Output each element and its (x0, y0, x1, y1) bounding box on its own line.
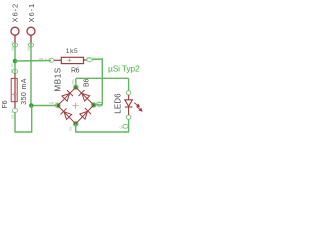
diode D4 bottom-right edge (points to right) (76, 105, 94, 124)
connector X6-2 pin stem (14, 35, 16, 43)
wire X6-1 down to junction (30, 43, 32, 106)
diode D1 top-left edge (points to top) (58, 87, 76, 105)
net label ellipse near LED bottom (123, 124, 128, 128)
net label ellipse at bridge right pin (97, 102, 103, 106)
fuse F6 through-line (14, 74, 16, 109)
wire down to LED top (128, 78, 130, 90)
top dc rail (76, 77, 129, 79)
wire bridge bottom to LED bottom rail (76, 119, 129, 132)
svg-text:B6: B6 (84, 79, 91, 87)
resistor R6 origin cross (68, 58, 72, 62)
svg-text:1k5: 1k5 (66, 48, 79, 55)
net label ellipse above fuse (12, 70, 17, 74)
resistor R6 left stem (54, 59, 61, 61)
svg-text:LED6: LED6 (113, 93, 122, 114)
net label ellipse at X6-1 pin (28, 43, 33, 47)
wire junction to bridge left pin (31, 105, 56, 107)
svg-text:DB_N: DB_N (27, 43, 31, 51)
diode D2 top-right edge (points to top) (76, 87, 94, 105)
svg-text:DB_1: DB_1 (39, 57, 47, 61)
fuse F6 origin cross (12, 92, 17, 97)
svg-text:MB1S: MB1S (53, 67, 62, 91)
diode D3 bottom-left edge (points to left) (58, 106, 76, 124)
svg-text:DB+: DB+ (96, 100, 102, 104)
net label ellipse below fuse (12, 108, 17, 112)
LED6 bottom pin circle (126, 115, 130, 119)
wire fuse bottom to X6-1 junction (15, 106, 32, 133)
svg-text:R6: R6 (71, 68, 80, 75)
net label ellipse at R6 left pin (49, 58, 54, 62)
LED6 diode symbol (125, 95, 133, 115)
svg-text:DB-: DB- (69, 126, 73, 131)
svg-text:DB_HV: DB_HV (11, 41, 15, 51)
bridge left pin junction (55, 103, 60, 108)
connector X6-1 pin stem (30, 35, 32, 43)
svg-text:X6-2: X6-2 (11, 3, 20, 23)
svg-text:X6-1: X6-1 (27, 3, 36, 23)
svg-text:DB+: DB+ (71, 78, 75, 84)
svg-text:350 mA: 350 mA (21, 78, 28, 105)
junction on X6-2 wire (13, 59, 18, 64)
bridge origin cross (73, 103, 79, 109)
connector X6-2 pad (11, 27, 19, 35)
wire rail to resistor R6 left (15, 60, 51, 63)
net label ellipse at X6-2 pin (12, 43, 17, 47)
wire X6-2 down to fuse (14, 43, 16, 74)
resistor R6 right stem (84, 59, 88, 61)
bridge top pin junction (73, 85, 78, 90)
fuse F6 body (11, 78, 17, 101)
svg-text:DB_N: DB_N (50, 101, 58, 105)
wire down to bridge top (75, 78, 77, 87)
svg-text:DB_F: DB_F (11, 111, 15, 119)
svg-text:µSi Typ2: µSi Typ2 (108, 63, 140, 73)
wire R6 right to corner and down (92, 59, 102, 105)
connector X6-1 pad (27, 27, 35, 35)
junction dot X6-1/fuse (29, 103, 34, 108)
resistor R6 body (61, 57, 83, 63)
net label ellipse at R6 right pin (87, 58, 92, 62)
svg-text:DB: DB (120, 126, 124, 130)
svg-text:F6: F6 (2, 100, 9, 108)
bridge right pin junction (91, 103, 96, 108)
bridge bottom pin junction (73, 121, 78, 126)
svg-text:DB_HV: DB_HV (10, 63, 14, 73)
LED6 top pin circle (126, 91, 130, 95)
LED6 emission arrows (134, 103, 142, 111)
